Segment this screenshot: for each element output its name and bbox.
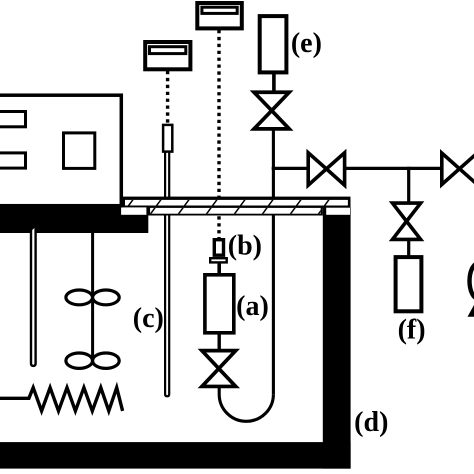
bath wall: top-left black bar xyxy=(0,205,148,233)
valve V2 under cell (a) xyxy=(202,351,236,387)
svg-text:(f): (f) xyxy=(398,315,426,346)
transducer (b) body xyxy=(214,240,223,256)
gas line: U-turn connecting dip tube to valve V2 xyxy=(219,385,273,421)
equilibrium cell (a) xyxy=(205,275,234,333)
heater coil zigzag xyxy=(0,388,123,411)
dotted signal line from meter M2 to transducer (b) xyxy=(217,30,220,239)
meter M1 display box xyxy=(145,42,190,69)
stem from cylinder (e) to valve V1 xyxy=(272,72,276,93)
lid: upper flange bar (black body) xyxy=(122,197,350,208)
controller slot 2 xyxy=(0,153,26,168)
bath wall: bottom black bar xyxy=(0,442,351,469)
meter M1 display window xyxy=(150,47,186,54)
stirrer propeller upper xyxy=(66,290,93,305)
lid: upper flange bar interior (white) xyxy=(125,200,348,206)
valve V5 vertical above trap (f) xyxy=(392,203,420,239)
svg-text:(d): (d) xyxy=(354,407,388,438)
transducer (b) stem xyxy=(217,262,221,274)
stirrer propeller lower xyxy=(66,353,93,368)
stirrer shaft xyxy=(91,230,94,361)
stem from cell (a) to valve V2 xyxy=(217,333,220,353)
svg-text:(b): (b) xyxy=(228,231,262,262)
gas manifold: horizontal pipe from valve V3 to valve V4 xyxy=(344,167,443,170)
thermowell tube (c) body xyxy=(164,151,170,398)
dotted signal line from meter M1 to sensor on tube (c) xyxy=(166,71,169,124)
meter M2 display window xyxy=(202,7,237,13)
meter M2 display box xyxy=(197,3,242,28)
seal notch right (white) xyxy=(326,208,350,215)
controller slot 1 xyxy=(0,112,26,127)
stem from valve V5 to trap (f) xyxy=(407,240,410,257)
thermowell thin tube left xyxy=(30,228,37,367)
svg-text:(c): (c) xyxy=(133,303,164,334)
valve V1 below cylinder (e) xyxy=(254,92,289,129)
controller square button xyxy=(64,133,95,169)
controller box xyxy=(0,95,121,206)
valve V3 horizontal on manifold xyxy=(308,153,344,185)
seal notch left (white) xyxy=(121,207,146,214)
trap (f) xyxy=(396,257,422,311)
gas line: long vertical from valve V1 down into vessel xyxy=(272,127,275,394)
lid: lower plate bar interior (white) xyxy=(150,208,321,214)
valve V4 horizontal at right edge (cut off) xyxy=(442,153,474,185)
gas manifold: horizontal pipe from vertical line to valve V3 xyxy=(272,167,309,170)
lid: lower plate bar (black body) xyxy=(146,206,322,216)
sensor body on tube (c) xyxy=(163,125,172,152)
partial triangle mark at right edge xyxy=(468,301,474,317)
transducer (b) flange xyxy=(210,258,227,262)
svg-text:(e): (e) xyxy=(291,28,322,59)
label (g) cut off at right edge xyxy=(470,264,474,299)
svg-text:(a): (a) xyxy=(236,291,269,322)
gas manifold: branch down to valve V5 xyxy=(407,167,410,204)
bath wall: right vertical wall (d) xyxy=(323,207,351,468)
gas cylinder (e) xyxy=(260,16,287,72)
